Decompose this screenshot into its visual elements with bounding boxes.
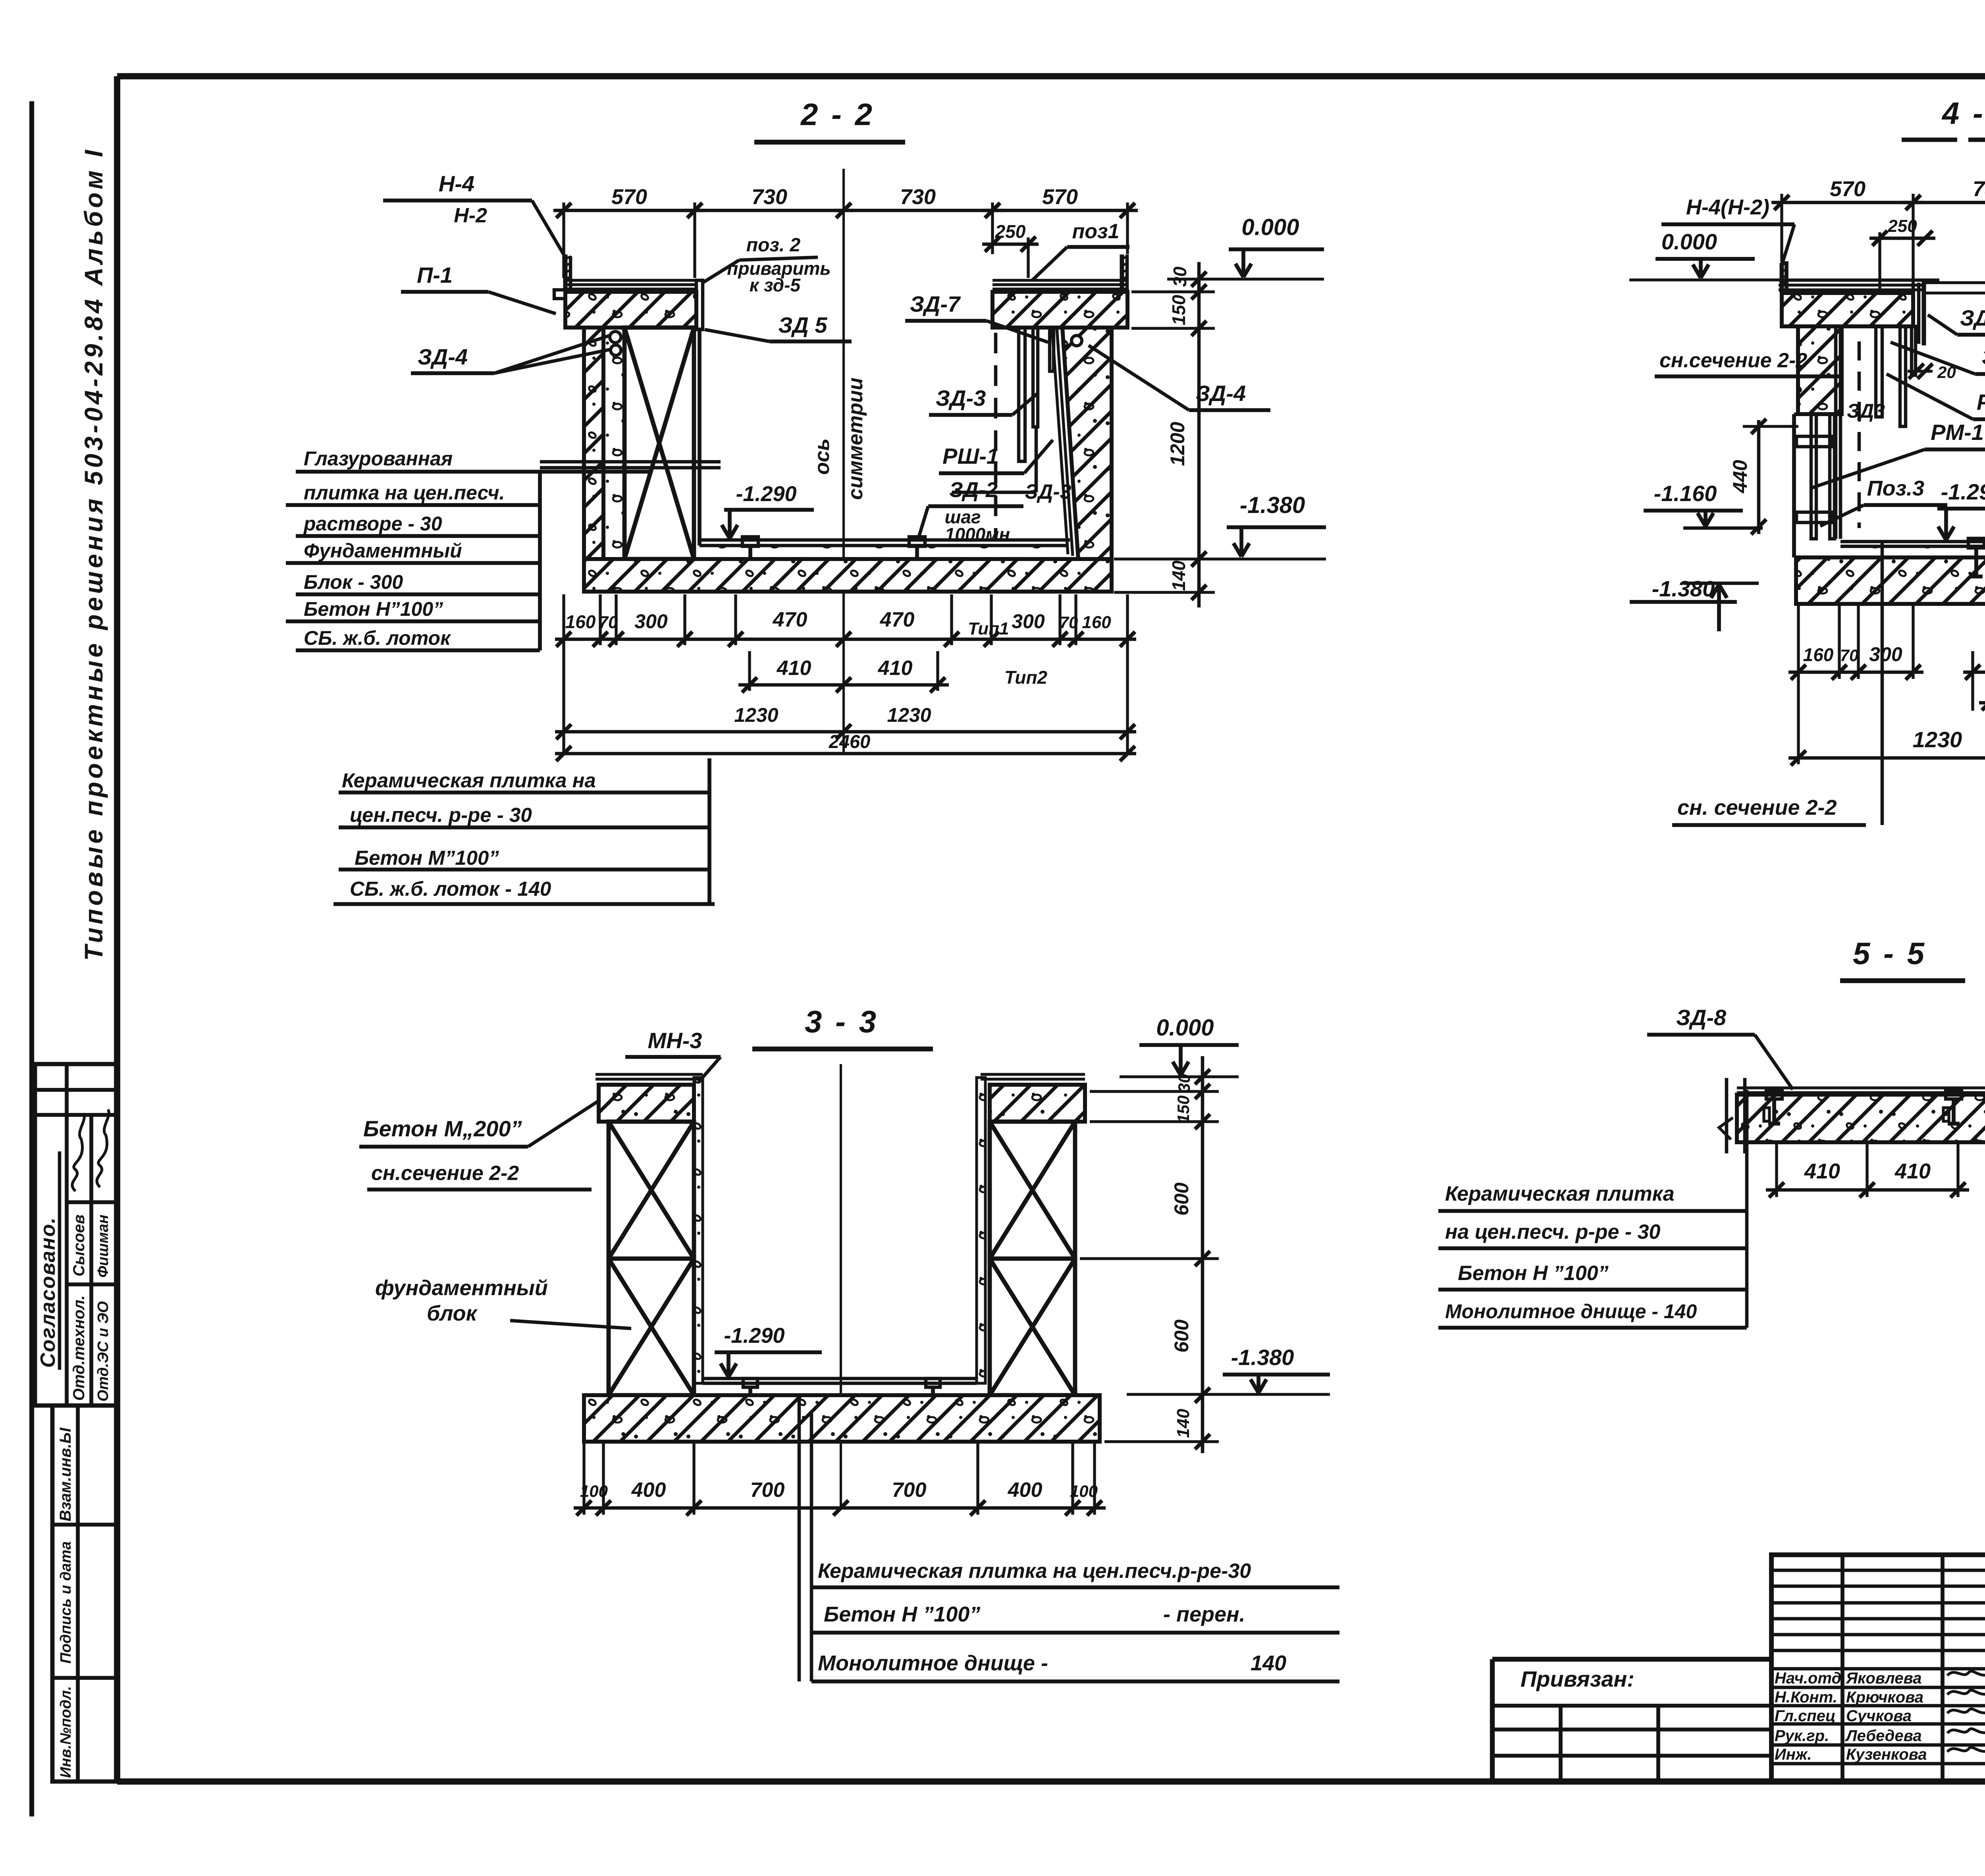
- svg-text:Блок - 300: Блок - 300: [304, 571, 403, 593]
- svg-text:300: 300: [634, 610, 668, 632]
- svg-text:МН-3: МН-3: [648, 1028, 702, 1053]
- svg-text:600: 600: [1170, 1182, 1193, 1216]
- svg-text:Бетон М”100”: Бетон М”100”: [355, 846, 499, 869]
- svg-text:П-1: П-1: [417, 262, 453, 287]
- svg-text:100: 100: [1070, 1482, 1098, 1500]
- svg-text:730: 730: [752, 185, 787, 209]
- svg-text:ось: ось: [811, 438, 834, 475]
- svg-text:30: 30: [1170, 266, 1190, 287]
- svg-text:250: 250: [1887, 216, 1917, 236]
- svg-text:1000мн: 1000мн: [945, 524, 1010, 545]
- svg-text:2460: 2460: [829, 731, 871, 752]
- svg-text:Бетон Н ”100”: Бетон Н ”100”: [824, 1602, 980, 1626]
- svg-text:100: 100: [580, 1482, 608, 1500]
- svg-text:730: 730: [900, 185, 936, 209]
- svg-text:1230: 1230: [887, 704, 931, 726]
- svg-text:160: 160: [565, 611, 596, 632]
- svg-text:Н-4: Н-4: [439, 171, 474, 196]
- svg-text:ЗД 5: ЗД 5: [778, 312, 827, 337]
- svg-text:СБ. ж.б. лоток - 140: СБ. ж.б. лоток - 140: [350, 877, 551, 900]
- svg-text:570: 570: [1830, 177, 1866, 201]
- svg-text:730: 730: [1973, 177, 1985, 201]
- svg-text:Рук.гр.: Рук.гр.: [1775, 1727, 1829, 1745]
- svg-text:Типовые проектные решения 5: Типовые проектные решения 503-04-29.84 А…: [79, 147, 108, 961]
- svg-text:Глазурованная: Глазурованная: [304, 447, 453, 470]
- svg-text:ЗД-7: ЗД-7: [910, 291, 961, 316]
- svg-text:ЗД-8: ЗД-8: [1676, 1005, 1727, 1030]
- svg-text:Керамическая плитка на цен.пес: Керамическая плитка на цен.песч.р-ре-30: [818, 1560, 1251, 1583]
- svg-text:ЗД-2: ЗД-2: [949, 478, 998, 502]
- svg-text:сн.сечение 2-2: сн.сечение 2-2: [371, 1162, 519, 1185]
- svg-text:ЗД-7: ЗД-7: [1982, 344, 1985, 369]
- svg-text:Привязан:: Привязан:: [1521, 1666, 1634, 1691]
- svg-text:250: 250: [995, 221, 1026, 242]
- svg-text:5 - 5: 5 - 5: [1853, 936, 1927, 971]
- svg-text:470: 470: [773, 608, 807, 631]
- svg-text:симметрии: симметрии: [844, 378, 867, 500]
- svg-text:150: 150: [1174, 1095, 1193, 1123]
- svg-text:Яковлева: Яковлева: [1846, 1670, 1922, 1687]
- svg-text:160: 160: [1803, 644, 1834, 665]
- svg-text:160: 160: [1082, 613, 1111, 632]
- svg-text:к зд-5: к зд-5: [750, 275, 801, 295]
- svg-text:570: 570: [611, 185, 647, 209]
- svg-text:Лебедева: Лебедева: [1845, 1727, 1922, 1745]
- svg-text:ЗД-4: ЗД-4: [418, 344, 468, 369]
- svg-text:ЗД-3: ЗД-3: [936, 386, 986, 411]
- svg-text:Тип2: Тип2: [1004, 667, 1048, 688]
- svg-text:РШ-1: РШ-1: [1977, 389, 1985, 415]
- svg-text:сн.сечение 2-2: сн.сечение 2-2: [1659, 349, 1807, 372]
- svg-text:400: 400: [631, 1479, 666, 1502]
- svg-text:Н.Конт.: Н.Конт.: [1775, 1689, 1837, 1706]
- svg-text:140: 140: [1168, 560, 1189, 591]
- svg-text:- перен.: - перен.: [1163, 1602, 1245, 1626]
- svg-text:Инж.: Инж.: [1775, 1746, 1812, 1763]
- svg-text:440: 440: [1729, 460, 1751, 494]
- svg-text:3 - 3: 3 - 3: [805, 1004, 879, 1039]
- svg-text:Нач.отд.: Нач.отд.: [1775, 1670, 1846, 1687]
- svg-text:ЗД-5: ЗД-5: [1960, 305, 1985, 330]
- svg-text:Бетон М„200”: Бетон М„200”: [363, 1116, 522, 1141]
- svg-text:Подпись и дата: Подпись и дата: [58, 1541, 74, 1664]
- svg-text:140: 140: [1174, 1409, 1193, 1438]
- svg-text:140: 140: [1251, 1651, 1286, 1675]
- svg-text:Согласовано.: Согласовано.: [37, 1217, 60, 1368]
- svg-text:410: 410: [1894, 1159, 1931, 1183]
- svg-text:Взам.инв.Ы: Взам.инв.Ы: [57, 1427, 74, 1521]
- svg-text:70: 70: [599, 613, 618, 632]
- svg-text:Инв.№подл.: Инв.№подл.: [58, 1686, 74, 1778]
- svg-text:470: 470: [880, 608, 915, 631]
- svg-text:ЗД-4: ЗД-4: [1196, 381, 1246, 406]
- svg-text:сн. сечение 2-2: сн. сечение 2-2: [1677, 796, 1837, 819]
- svg-text:Н-2: Н-2: [454, 204, 487, 227]
- svg-text:0.000: 0.000: [1661, 229, 1717, 254]
- svg-text:Сысоев: Сысоев: [70, 1215, 88, 1276]
- svg-text:1230: 1230: [734, 704, 778, 726]
- svg-text:1200: 1200: [1166, 422, 1189, 466]
- svg-text:70: 70: [1060, 613, 1078, 632]
- svg-text:150: 150: [1168, 295, 1189, 325]
- svg-text:Н-4(Н-2): Н-4(Н-2): [1686, 195, 1769, 219]
- svg-text:-1.290: -1.290: [736, 482, 796, 506]
- svg-text:300: 300: [1869, 643, 1902, 665]
- svg-text:блок: блок: [427, 1301, 478, 1325]
- svg-text:РШ-1: РШ-1: [942, 443, 999, 469]
- svg-text:0.000: 0.000: [1241, 214, 1299, 240]
- svg-text:410: 410: [1804, 1159, 1840, 1183]
- svg-text:Керамическая плитка на: Керамическая плитка на: [342, 769, 596, 792]
- svg-text:Гл.спец: Гл.спец: [1775, 1707, 1836, 1725]
- svg-text:Отд.технол.: Отд.технол.: [70, 1295, 88, 1401]
- svg-text:Бетон Н ”100”: Бетон Н ”100”: [1458, 1262, 1609, 1285]
- svg-text:410: 410: [777, 657, 811, 680]
- svg-text:400: 400: [1008, 1479, 1043, 1502]
- svg-text:ЗД-3: ЗД-3: [1025, 480, 1071, 503]
- svg-text:Бетон Н”100”: Бетон Н”100”: [304, 598, 443, 620]
- svg-text:Поз.3: Поз.3: [1867, 476, 1924, 500]
- svg-text:700: 700: [750, 1479, 785, 1502]
- svg-text:0.000: 0.000: [1156, 1015, 1214, 1041]
- svg-text:Монолитное днище - 140: Монолитное днище - 140: [1445, 1300, 1697, 1323]
- svg-text:300: 300: [1012, 610, 1045, 632]
- svg-text:Крючкова: Крючкова: [1846, 1689, 1923, 1706]
- svg-text:-1.380: -1.380: [1652, 576, 1715, 601]
- svg-text:Керамическая плитка: Керамическая плитка: [1445, 1182, 1675, 1205]
- svg-text:-1.380: -1.380: [1240, 492, 1305, 518]
- svg-text:Кузенкова: Кузенкова: [1846, 1746, 1927, 1763]
- svg-text:30: 30: [1175, 1074, 1193, 1093]
- svg-text:Фундаментный: Фундаментный: [304, 540, 462, 562]
- svg-text:2 - 2: 2 - 2: [800, 97, 875, 132]
- svg-text:570: 570: [1042, 185, 1078, 209]
- svg-text:-1.290: -1.290: [1941, 479, 1985, 504]
- svg-text:70: 70: [1840, 646, 1859, 665]
- svg-text:поз1: поз1: [1072, 220, 1120, 243]
- svg-text:1230: 1230: [1913, 727, 1962, 752]
- svg-text:Отд.ЭС и ЭО: Отд.ЭС и ЭО: [95, 1301, 112, 1402]
- svg-text:РМ-1: РМ-1: [1931, 420, 1984, 445]
- svg-text:Тип1: Тип1: [968, 619, 1009, 638]
- svg-text:Монолитное днище -: Монолитное днище -: [818, 1651, 1048, 1675]
- svg-text:-1.380: -1.380: [1231, 1345, 1294, 1370]
- svg-text:поз. 2: поз. 2: [746, 235, 801, 256]
- svg-text:на цен.песч. р-ре - 30: на цен.песч. р-ре - 30: [1445, 1220, 1661, 1244]
- svg-text:цен.песч. р-ре - 30: цен.песч. р-ре - 30: [350, 804, 532, 826]
- svg-text:Сучкова: Сучкова: [1846, 1707, 1912, 1725]
- svg-text:ЗД3: ЗД3: [1847, 400, 1885, 422]
- svg-text:-1.290: -1.290: [724, 1324, 784, 1348]
- svg-text:700: 700: [892, 1479, 927, 1502]
- svg-text:растворе - 30: растворе - 30: [303, 513, 442, 535]
- svg-text:410: 410: [878, 657, 913, 680]
- svg-text:-1.160: -1.160: [1654, 481, 1717, 506]
- svg-text:Фишман: Фишман: [95, 1215, 112, 1278]
- svg-text:плитка на цен.песч.: плитка на цен.песч.: [304, 482, 505, 504]
- svg-text:600: 600: [1170, 1319, 1193, 1353]
- svg-text:СБ. ж.б. лоток: СБ. ж.б. лоток: [304, 627, 451, 649]
- svg-text:4 - 4: 4 - 4: [1941, 96, 1985, 131]
- svg-text:фундаментный: фундаментный: [375, 1276, 548, 1300]
